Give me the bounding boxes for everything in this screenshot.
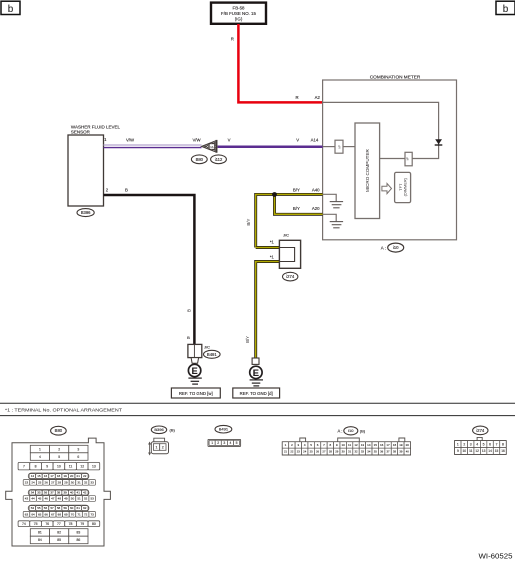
svg-text:12: 12 — [354, 443, 358, 447]
connector ref B491 — [204, 350, 221, 358]
svg-text:A20: A20 — [312, 206, 320, 211]
svg-text:68: 68 — [58, 512, 62, 516]
svg-text:*1: *1 — [270, 255, 275, 260]
svg-text:B80: B80 — [196, 157, 204, 162]
svg-text:79: 79 — [80, 522, 84, 526]
svg-text:85: 85 — [57, 538, 61, 542]
svg-text:81: 81 — [38, 531, 42, 535]
svg-text:71: 71 — [77, 512, 81, 516]
svg-text:48: 48 — [58, 497, 62, 501]
svg-text:(B): (B) — [360, 429, 366, 434]
label V/W (2nd) — [192, 137, 201, 142]
svg-text:V: V — [228, 138, 231, 143]
svg-text:1: 1 — [457, 442, 459, 446]
svg-text:B491: B491 — [219, 427, 229, 432]
svg-text:13: 13 — [92, 464, 96, 468]
connector ref i112 — [211, 155, 227, 164]
svg-text:13: 13 — [361, 443, 365, 447]
svg-text:10: 10 — [463, 449, 467, 453]
svg-text:5: 5 — [483, 442, 485, 446]
svg-text:B/Y: B/Y — [293, 206, 300, 211]
connector pinout B491 — [208, 439, 241, 446]
svg-text:V: V — [296, 138, 299, 143]
separator line (lower) — [0, 415, 515, 417]
svg-text:59: 59 — [63, 506, 67, 510]
svg-text:3: 3 — [77, 447, 79, 451]
svg-text:44: 44 — [31, 497, 35, 501]
svg-text:32: 32 — [84, 480, 88, 484]
svg-text:60: 60 — [70, 506, 74, 510]
svg-text:A :: A : — [338, 429, 343, 434]
label *1 (upper) — [270, 239, 275, 244]
svg-text:45: 45 — [38, 497, 42, 501]
label B — [125, 188, 128, 193]
svg-text:1: 1 — [104, 137, 107, 142]
svg-text:31: 31 — [77, 480, 81, 484]
svg-text:36: 36 — [380, 450, 384, 454]
svg-text:22: 22 — [290, 450, 294, 454]
svg-text:38: 38 — [393, 450, 397, 454]
svg-text:4: 4 — [230, 441, 232, 445]
svg-text:15: 15 — [374, 443, 378, 447]
svg-text:10: 10 — [57, 464, 61, 468]
svg-text:39: 39 — [63, 491, 67, 495]
connector pinout i10 — [282, 438, 410, 455]
svg-text:4: 4 — [39, 455, 41, 459]
document number WI-60525 — [479, 551, 513, 560]
connector ref A: (i10) under meter — [381, 243, 404, 252]
svg-text:I/F: I/F — [338, 145, 342, 149]
svg-text:R: R — [231, 37, 234, 42]
svg-text:WI-60525: WI-60525 — [479, 551, 513, 560]
svg-text:66: 66 — [45, 512, 49, 516]
svg-text:25: 25 — [310, 450, 314, 454]
svg-text:24: 24 — [31, 480, 35, 484]
svg-text:36: 36 — [44, 491, 48, 495]
wire (internal) A2 to diode and resistor — [323, 102, 439, 158]
wire B (sensor pin2 to joint connector B491) — [104, 195, 195, 344]
connector ref B491 (pinout) — [215, 425, 232, 433]
svg-text:11: 11 — [69, 464, 73, 468]
connector ref B80 (pinout) — [51, 426, 67, 435]
svg-text:24: 24 — [303, 450, 307, 454]
svg-text:16: 16 — [44, 474, 48, 478]
svg-text:3: 3 — [470, 442, 472, 446]
svg-text:F/B FUSE NO. 15: F/B FUSE NO. 15 — [221, 11, 256, 16]
wire V (connector to A14) — [218, 146, 323, 149]
wire V/W (sensor pin1 to connector B80/i112) — [104, 145, 202, 148]
svg-text:57: 57 — [50, 506, 54, 510]
svg-text:REF. TO GND [w]: REF. TO GND [w] — [179, 391, 213, 396]
svg-text:40: 40 — [70, 491, 74, 495]
svg-text:E: E — [191, 366, 197, 376]
svg-text:22: 22 — [83, 474, 87, 478]
svg-text:B/Y: B/Y — [293, 187, 300, 192]
svg-text:17: 17 — [386, 443, 390, 447]
svg-text:31: 31 — [348, 450, 352, 454]
svg-text:8: 8 — [502, 442, 504, 446]
svg-text:i10: i10 — [348, 428, 354, 433]
svg-text:6: 6 — [489, 442, 491, 446]
svg-text:b: b — [503, 4, 509, 15]
svg-text:54: 54 — [31, 506, 35, 510]
svg-text:1: 1 — [39, 447, 41, 451]
svg-text:V/W: V/W — [126, 137, 135, 142]
micro computer U1 — [355, 123, 380, 219]
svg-text:74: 74 — [22, 522, 26, 526]
svg-text:38: 38 — [57, 491, 61, 495]
svg-text:37: 37 — [386, 450, 390, 454]
svg-text:SENSOR: SENSOR — [71, 129, 91, 134]
svg-text:25: 25 — [38, 480, 42, 484]
svg-text:i274: i274 — [286, 274, 295, 279]
buffer box on A14 line — [335, 140, 343, 153]
svg-text:61: 61 — [77, 506, 81, 510]
svg-text:78: 78 — [69, 522, 73, 526]
ground terminal plug (left) — [191, 358, 199, 364]
ref to gnd box (left) — [171, 388, 220, 398]
svg-text:62: 62 — [83, 506, 87, 510]
svg-text:2: 2 — [162, 446, 164, 450]
svg-text:12: 12 — [80, 464, 84, 468]
block arrow to TFT — [382, 183, 392, 193]
svg-text:15: 15 — [495, 449, 499, 453]
svg-text:42: 42 — [83, 491, 87, 495]
svg-text:R: R — [295, 95, 298, 100]
ground terminal plug (right) — [252, 358, 259, 364]
connector pinout i274 — [455, 437, 507, 454]
connector ref B80 — [191, 155, 207, 164]
svg-text:33: 33 — [361, 450, 365, 454]
connector ref i274 — [283, 272, 298, 281]
wire B/Y (junction to A20) — [275, 194, 323, 214]
wire B/Y (junction to A40) — [256, 194, 323, 247]
svg-text:41: 41 — [77, 491, 81, 495]
connector ref i274 (pinout) — [473, 426, 488, 435]
svg-text:9: 9 — [457, 449, 459, 453]
svg-text:53: 53 — [91, 497, 95, 501]
svg-text:21: 21 — [284, 450, 288, 454]
svg-text:23: 23 — [297, 450, 301, 454]
svg-text:15: 15 — [37, 474, 41, 478]
svg-text:27: 27 — [51, 480, 55, 484]
svg-text:43: 43 — [25, 497, 29, 501]
svg-text:16: 16 — [501, 449, 505, 453]
svg-text:86: 86 — [76, 538, 80, 542]
svg-text:2: 2 — [106, 188, 109, 193]
ref to gnd box (right) — [233, 388, 280, 398]
connector ref B396 (sensor) — [77, 209, 94, 217]
separator line (upper) — [0, 402, 515, 404]
svg-text:6: 6 — [77, 455, 79, 459]
svg-text:3: 3 — [223, 441, 225, 445]
svg-text:35: 35 — [37, 491, 41, 495]
svg-text:MICRO COMPUTER: MICRO COMPUTER — [365, 148, 370, 192]
svg-text:(B): (B) — [170, 427, 176, 432]
svg-text:*1 : TERMINAL No. OPTIONAL ARR: *1 : TERMINAL No. OPTIONAL ARRANGEMENT — [5, 407, 122, 413]
svg-text:19: 19 — [399, 443, 403, 447]
washer fluid level sensor box — [68, 125, 120, 206]
svg-text:30: 30 — [71, 480, 75, 484]
svg-text:63: 63 — [25, 512, 29, 516]
svg-text:COMBINATION METER: COMBINATION METER — [370, 74, 421, 79]
svg-text:34: 34 — [367, 450, 371, 454]
label *1 (lower) — [270, 255, 275, 260]
label B (above J/C) — [187, 335, 190, 340]
svg-text:84: 84 — [38, 538, 42, 542]
svg-text:5: 5 — [58, 455, 60, 459]
svg-text:58: 58 — [57, 506, 61, 510]
svg-text:B396: B396 — [81, 210, 91, 215]
svg-text:14: 14 — [488, 449, 492, 453]
svg-text:49: 49 — [64, 497, 68, 501]
label R (top) — [231, 37, 234, 42]
svg-text:V/W: V/W — [192, 137, 201, 142]
svg-text:B80: B80 — [55, 428, 63, 433]
svg-text:b: b — [8, 4, 14, 15]
svg-text:67: 67 — [51, 512, 55, 516]
diode (illumination) — [435, 139, 443, 146]
svg-text:39: 39 — [399, 450, 403, 454]
svg-text:35: 35 — [374, 450, 378, 454]
svg-text:83: 83 — [76, 531, 80, 535]
svg-text:A2: A2 — [315, 95, 321, 100]
svg-text:2: 2 — [58, 447, 60, 451]
svg-text:34: 34 — [31, 491, 35, 495]
svg-text:76: 76 — [45, 522, 49, 526]
svg-text:2: 2 — [463, 442, 465, 446]
ground E (left) — [188, 364, 201, 384]
svg-text:70: 70 — [71, 512, 75, 516]
label B (rotated) — [186, 309, 191, 312]
svg-text:72: 72 — [84, 512, 88, 516]
svg-text:56: 56 — [44, 506, 48, 510]
pin 2 — [106, 188, 109, 193]
svg-text:46: 46 — [45, 497, 49, 501]
svg-text:27: 27 — [322, 450, 326, 454]
svg-text:18: 18 — [57, 474, 61, 478]
svg-text:1: 1 — [156, 446, 158, 450]
svg-text:40: 40 — [406, 450, 410, 454]
svg-text:50: 50 — [71, 497, 75, 501]
svg-text:73: 73 — [91, 512, 95, 516]
svg-text:17: 17 — [50, 474, 54, 478]
pin 1 — [104, 137, 107, 142]
svg-text:23: 23 — [25, 480, 29, 484]
svg-text:i112: i112 — [215, 157, 223, 162]
svg-text:30: 30 — [342, 450, 346, 454]
svg-text:B/Y: B/Y — [246, 219, 251, 226]
svg-text:B396: B396 — [154, 427, 164, 432]
svg-text:FB-58: FB-58 — [233, 5, 246, 10]
svg-text:A40: A40 — [312, 187, 320, 192]
svg-text:77: 77 — [57, 522, 61, 526]
svg-text:14: 14 — [31, 474, 35, 478]
svg-text:B: B — [125, 188, 128, 193]
ground E (right) — [250, 366, 263, 386]
svg-text:2: 2 — [217, 441, 219, 445]
junction node — [272, 192, 277, 197]
svg-text:64: 64 — [31, 512, 35, 516]
note *1 terminal optional arrangement — [5, 407, 122, 413]
svg-text:16: 16 — [380, 443, 384, 447]
label V — [228, 138, 231, 143]
svg-text:11: 11 — [348, 443, 351, 447]
svg-text:(DIMMER): (DIMMER) — [402, 177, 407, 196]
svg-text:E: E — [253, 368, 259, 378]
svg-text:(IG): (IG) — [235, 17, 243, 22]
svg-text:69: 69 — [64, 512, 68, 516]
svg-text:12: 12 — [475, 449, 479, 453]
svg-text:51: 51 — [77, 497, 81, 501]
TFT (DIMMER) box — [395, 172, 411, 202]
svg-text:19: 19 — [63, 474, 67, 478]
svg-text:82: 82 — [57, 531, 61, 535]
svg-text:REF. TO GND [d]: REF. TO GND [d] — [240, 391, 273, 396]
svg-text:B: B — [187, 335, 190, 340]
svg-text:4: 4 — [476, 442, 478, 446]
svg-text:11: 11 — [469, 449, 473, 453]
svg-text:18: 18 — [393, 443, 397, 447]
svg-text:32: 32 — [354, 450, 358, 454]
svg-text:I/F: I/F — [406, 157, 410, 161]
wire (internal) A14 to micro computer — [323, 146, 355, 148]
internal ground (A20) — [323, 214, 344, 228]
svg-text:20: 20 — [70, 474, 74, 478]
svg-text:75: 75 — [34, 522, 38, 526]
joint connector J/C i274 — [279, 233, 300, 269]
svg-text:26: 26 — [45, 480, 49, 484]
svg-text:*1: *1 — [270, 239, 275, 244]
label V (2nd) / pin A14 — [296, 138, 319, 143]
svg-text:i274: i274 — [476, 428, 485, 433]
wire B/Y (J/C i274 lower pin to ground) — [256, 262, 280, 359]
internal ground (A40) — [323, 194, 344, 208]
svg-text:26: 26 — [316, 450, 320, 454]
svg-text:9: 9 — [46, 464, 48, 468]
svg-text:29: 29 — [335, 450, 339, 454]
label B/Y (rotated, upper run) — [246, 219, 251, 226]
svg-text:1: 1 — [211, 441, 213, 445]
svg-text:14: 14 — [367, 443, 371, 447]
svg-text:52: 52 — [84, 497, 88, 501]
svg-text:13: 13 — [482, 449, 486, 453]
svg-text:10: 10 — [342, 443, 346, 447]
svg-text:B: B — [186, 309, 191, 312]
frame marker b (top-right) — [496, 1, 515, 15]
connector ref B396 (pinout) — [151, 426, 175, 434]
svg-text:B491: B491 — [207, 352, 217, 357]
resistor box on dimmer line — [405, 152, 412, 166]
label B/Y (A40) / pin A40 — [293, 187, 320, 192]
label B/Y (A20) / pin A20 — [293, 206, 320, 211]
label V/W — [126, 137, 135, 142]
svg-text:J/C: J/C — [283, 233, 289, 238]
svg-text:7: 7 — [23, 464, 25, 468]
joint connector J/C B491 — [188, 344, 210, 357]
svg-text:55: 55 — [37, 506, 41, 510]
wire B/Y (to J/C i274 upper pin) — [256, 246, 280, 249]
svg-text:7: 7 — [496, 442, 498, 446]
connector pinout B396 — [148, 438, 168, 455]
svg-text:B/Y: B/Y — [245, 336, 250, 343]
connector pinout B80 — [6, 438, 111, 546]
combination meter box — [323, 74, 457, 239]
svg-text:29: 29 — [64, 480, 68, 484]
svg-text:J/C: J/C — [204, 345, 210, 350]
svg-text:5: 5 — [236, 441, 238, 445]
svg-text:65: 65 — [38, 512, 42, 516]
label B/Y (rotated, lower run) — [245, 336, 250, 343]
frame marker b (top-left) — [1, 1, 20, 15]
svg-text:1A: 1A — [210, 145, 213, 149]
wire R (ignition feed from fuse to A2) — [238, 24, 322, 102]
svg-text:80: 80 — [92, 522, 96, 526]
svg-text:i10: i10 — [393, 245, 399, 250]
svg-text:47: 47 — [51, 497, 55, 501]
label R / pin A2 — [295, 95, 320, 100]
svg-text:28: 28 — [329, 450, 333, 454]
svg-text:33: 33 — [91, 480, 95, 484]
svg-text:20: 20 — [406, 443, 410, 447]
connector ref A: (i10) (pinout) — [338, 427, 366, 435]
svg-text:28: 28 — [58, 480, 62, 484]
svg-text:21: 21 — [77, 474, 81, 478]
svg-text:A :: A : — [381, 246, 386, 251]
fuse FB-58 F/B FUSE NO.15 (IG) — [211, 3, 266, 24]
svg-text:8: 8 — [35, 464, 37, 468]
svg-text:37: 37 — [50, 491, 54, 495]
svg-text:A14: A14 — [311, 138, 319, 143]
